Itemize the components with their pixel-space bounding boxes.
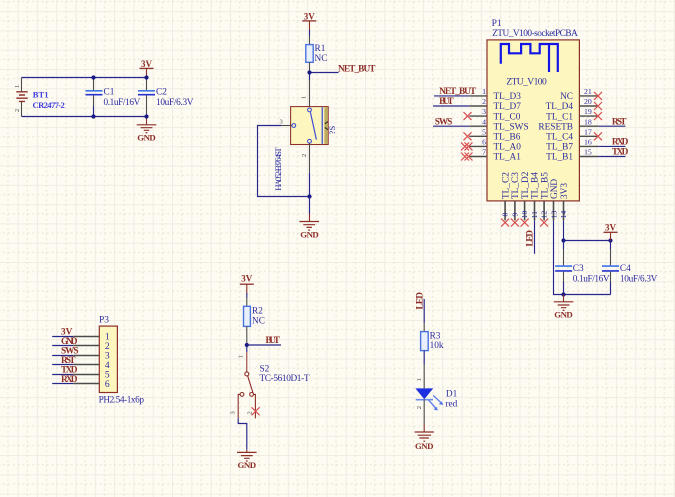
- diode D1 pin2 to GND: [416, 399, 424, 424]
- svg-text:10uF/6.3V: 10uF/6.3V: [620, 274, 658, 284]
- designator P3: [99, 316, 109, 326]
- switch S2: [229, 345, 310, 418]
- svg-text:LED: LED: [525, 230, 535, 247]
- svg-text:3: 3: [105, 351, 110, 361]
- resistor R2: [244, 298, 265, 346]
- no-connect X pin3: [464, 112, 472, 120]
- no-connect X pin5: [464, 132, 472, 140]
- svg-text:0.1uF/16V: 0.1uF/16V: [573, 274, 610, 284]
- svg-text:10uF/6.3V: 10uF/6.3V: [156, 98, 194, 108]
- svg-text:3: 3: [482, 107, 486, 116]
- svg-text:HA052-E8764ST: HA052-E8764ST: [273, 147, 283, 191]
- wire SWS (P3): [52, 355, 73, 357]
- svg-text:TXD: TXD: [612, 148, 629, 158]
- svg-text:NC: NC: [315, 54, 328, 64]
- LED D1: [415, 388, 457, 410]
- P3 pin stubs: [73, 337, 99, 384]
- svg-text:NET_BUT: NET_BUT: [439, 87, 477, 97]
- ground (C3 C4): [554, 295, 574, 320]
- svg-text:2: 2: [416, 406, 423, 409]
- svg-text:TL_D7: TL_D7: [494, 102, 522, 112]
- no-connect X pin19: [594, 112, 602, 120]
- node top C1: [91, 75, 95, 79]
- bottom pin numbers (rotated): [501, 211, 569, 219]
- net label RXD (P3): [61, 375, 78, 385]
- svg-text:20: 20: [584, 97, 592, 106]
- svg-text:TL_B1: TL_B1: [546, 153, 573, 163]
- svg-text:RXD: RXD: [61, 375, 78, 385]
- left pin names: [494, 92, 529, 163]
- value TS4678E-250AH (rotated): [273, 147, 283, 191]
- wire 3V to R1: [309, 30, 311, 36]
- svg-text:R3: R3: [430, 331, 441, 341]
- svg-text:GND: GND: [554, 310, 573, 320]
- svg-text:TL_C1: TL_C1: [546, 112, 573, 122]
- net label RST (P3): [61, 356, 76, 366]
- svg-text:NC: NC: [252, 316, 265, 326]
- pin 2 wire (switch bottom to junction): [301, 143, 310, 196]
- svg-text:BUT: BUT: [439, 97, 454, 107]
- wire LED (pin11 down): [534, 220, 536, 253]
- wire 3V3 pin14 down: [563, 220, 565, 240]
- wire top rail battery to C2: [22, 77, 147, 79]
- svg-text:18: 18: [584, 117, 592, 126]
- right pin names: [538, 92, 573, 163]
- svg-text:C2: C2: [156, 88, 167, 98]
- svg-text:6: 6: [482, 138, 486, 147]
- net label 3V (P3): [61, 327, 73, 337]
- svg-text:TL_D4: TL_D4: [546, 102, 574, 112]
- svg-text:CR2477-2: CR2477-2: [33, 100, 65, 110]
- no-connect X pin9: [511, 219, 519, 227]
- svg-text:3V: 3V: [141, 59, 153, 69]
- svg-text:3V3: 3V3: [560, 183, 570, 199]
- node bottom C2: [144, 114, 148, 118]
- svg-text:17: 17: [584, 127, 592, 136]
- no-connect X S2 pin2: [252, 407, 260, 415]
- bottom pin names (rotated): [501, 171, 570, 199]
- svg-text:10k: 10k: [430, 341, 444, 351]
- diode D1 pin1: [416, 365, 424, 389]
- svg-text:14: 14: [559, 211, 568, 219]
- svg-text:2: 2: [301, 154, 308, 157]
- svg-text:SWS: SWS: [435, 117, 453, 127]
- svg-text:3V: 3V: [605, 223, 617, 233]
- wire GND pin13 down: [554, 220, 611, 294]
- svg-text:1: 1: [416, 378, 423, 381]
- svg-text:C4: C4: [620, 264, 631, 274]
- svg-text:1: 1: [105, 332, 110, 342]
- svg-text:P3: P3: [99, 316, 109, 326]
- ground (S2): [237, 450, 257, 470]
- power 3V (section A): [140, 59, 154, 78]
- header body P3: [99, 326, 117, 392]
- svg-text:ZTU_V100: ZTU_V100: [506, 78, 547, 88]
- net label LED (rotated): [525, 230, 535, 247]
- svg-text:6: 6: [105, 380, 110, 390]
- svg-text:2: 2: [105, 342, 110, 352]
- antenna glyph: [501, 44, 558, 72]
- svg-text:TL_SWS: TL_SWS: [494, 122, 529, 132]
- svg-text:SWS: SWS: [61, 346, 79, 356]
- svg-text:C3: C3: [573, 264, 584, 274]
- svg-text:3: 3: [280, 118, 283, 125]
- right pin numbers: [584, 87, 592, 157]
- svg-text:TXD: TXD: [61, 365, 78, 375]
- right pins 21-15: [579, 96, 598, 157]
- svg-text:GND: GND: [137, 133, 156, 143]
- svg-text:BT1: BT1: [33, 89, 49, 99]
- no-connect X pin17: [594, 132, 602, 140]
- svg-text:GND: GND: [238, 460, 256, 470]
- svg-text:TL_B6: TL_B6: [494, 133, 521, 143]
- net label NET_BUT (P1): [439, 87, 477, 97]
- svg-text:1: 1: [301, 96, 308, 99]
- svg-text:RST: RST: [61, 356, 76, 366]
- resistor R3: [421, 323, 444, 364]
- net label NET_BUT: [338, 64, 376, 74]
- svg-text:3V: 3V: [61, 327, 73, 337]
- svg-text:21: 21: [584, 87, 592, 96]
- net label LED (rotated): [415, 292, 425, 310]
- svg-text:GND: GND: [61, 337, 78, 347]
- no-connect X pin21: [594, 92, 602, 100]
- capacitor C1: [86, 78, 141, 117]
- wire BUT: [247, 344, 281, 346]
- net label TXD (P3): [61, 365, 78, 375]
- left pin numbers: [482, 87, 486, 157]
- resistor R1: [306, 36, 328, 73]
- svg-text:16: 16: [584, 138, 592, 147]
- svg-text:TL_B7: TL_B7: [546, 143, 573, 153]
- svg-text:0.1uF/16V: 0.1uF/16V: [104, 98, 141, 108]
- svg-text:D1: D1: [446, 389, 458, 399]
- svg-text:R1: R1: [315, 44, 326, 54]
- wire GND (P3): [52, 345, 73, 347]
- ground (section B): [299, 214, 319, 240]
- wire TXD (P3): [52, 374, 73, 376]
- wire junction to switch pin1: [301, 73, 310, 108]
- pin 3 wire (switch to left, down, to junction): [258, 118, 310, 196]
- svg-text:9: 9: [511, 213, 520, 217]
- wire BUT to pin2: [433, 105, 469, 107]
- svg-text:TL_C3: TL_C3: [511, 172, 521, 199]
- designator P1: [492, 19, 502, 29]
- svg-text:2: 2: [14, 109, 21, 112]
- node BUT junction: [245, 343, 249, 347]
- ground (D1): [415, 425, 434, 452]
- svg-text:TL_A0: TL_A0: [494, 143, 522, 153]
- node bottom C1: [91, 114, 95, 118]
- wire S2 pin3 to GND: [238, 418, 247, 449]
- svg-text:11: 11: [530, 211, 539, 219]
- svg-text:13: 13: [550, 211, 559, 219]
- svg-text:5: 5: [105, 371, 110, 381]
- wire RST pin18: [598, 125, 625, 127]
- no-connect X pin8: [501, 219, 509, 227]
- value PH2.54-1x6p: [99, 395, 145, 405]
- svg-text:3: 3: [229, 411, 236, 414]
- svg-text:GND: GND: [300, 230, 319, 240]
- svg-text:TL_C0: TL_C0: [494, 112, 521, 122]
- svg-text:5: 5: [482, 127, 486, 136]
- wire junction to GND: [309, 197, 311, 214]
- wire NET_BUT: [310, 72, 339, 74]
- capacitor C3: [555, 241, 610, 295]
- value ZTU_V100-socketPCBA: [492, 29, 578, 39]
- battery BT1: [14, 78, 65, 117]
- svg-text:GND: GND: [550, 179, 560, 199]
- svg-text:1: 1: [14, 85, 21, 88]
- svg-text:1: 1: [238, 355, 245, 358]
- svg-text:4: 4: [482, 117, 486, 126]
- svg-text:1: 1: [482, 87, 486, 96]
- no-connect X pin7: [461, 153, 473, 161]
- svg-text:TL_C4: TL_C4: [546, 133, 573, 143]
- wire TXD pin15: [598, 156, 625, 158]
- svg-text:GND: GND: [415, 441, 434, 451]
- wire RST (P3): [52, 364, 73, 366]
- svg-text:S2: S2: [260, 364, 270, 374]
- no-connect X pin6: [461, 142, 473, 150]
- power 3V (C3 C4): [604, 223, 618, 241]
- svg-text:C1: C1: [104, 88, 115, 98]
- svg-text:TL_D2: TL_D2: [521, 171, 531, 199]
- svg-text:P1: P1: [492, 19, 502, 29]
- svg-text:2: 2: [482, 97, 486, 106]
- wire LED to R3: [423, 299, 425, 323]
- wire SWS to pin4: [433, 125, 469, 127]
- svg-text:R2: R2: [252, 307, 263, 317]
- label ZTU_V100: [506, 78, 547, 88]
- node 3V3 junction: [561, 238, 565, 242]
- no-connect X pin20: [594, 102, 602, 110]
- svg-text:TL_C2: TL_C2: [501, 172, 511, 199]
- svg-text:15: 15: [584, 148, 592, 157]
- capacitor C2: [138, 78, 194, 117]
- wire 3V to R2: [246, 293, 248, 298]
- svg-text:12: 12: [540, 211, 549, 219]
- svg-text:RXD: RXD: [612, 138, 629, 148]
- svg-text:8: 8: [501, 213, 510, 217]
- net label TXD: [612, 148, 629, 158]
- svg-text:10: 10: [520, 211, 529, 219]
- no-connect X pin12: [540, 219, 548, 227]
- svg-text:TL_A1: TL_A1: [494, 153, 522, 163]
- capacitor C4: [602, 241, 658, 295]
- net label BUT (P1): [439, 97, 454, 107]
- svg-text:4: 4: [105, 361, 110, 371]
- ground (section A): [137, 117, 157, 143]
- power 3V (R1): [302, 11, 316, 30]
- node switch bottom junction: [307, 194, 311, 198]
- wire NET_BUT to pin1: [434, 95, 469, 97]
- svg-text:?S: ?S: [327, 126, 337, 135]
- slide switch body: [291, 107, 337, 145]
- net label RST: [612, 117, 627, 127]
- net label SWS (P3): [61, 346, 79, 356]
- wire RXD (P3): [52, 383, 73, 385]
- net label SWS (P1): [435, 117, 453, 127]
- node 3V C4 corner: [608, 238, 612, 242]
- svg-text:NET_BUT: NET_BUT: [338, 64, 376, 74]
- svg-text:3V: 3V: [241, 274, 253, 284]
- power 3V (R2): [240, 274, 254, 294]
- wire 3V rail: [564, 240, 611, 242]
- no-connect X pin10: [521, 219, 529, 227]
- svg-text:TL_B5: TL_B5: [540, 172, 550, 199]
- wire RXD pin16: [598, 145, 625, 147]
- svg-text:3V: 3V: [304, 11, 316, 21]
- net label BUT: [266, 336, 281, 346]
- IC body P1: [487, 40, 579, 201]
- net label GND (P3): [61, 337, 78, 347]
- svg-text:TL_B4: TL_B4: [531, 172, 541, 199]
- left pins 1-7: [469, 96, 487, 157]
- svg-text:7: 7: [482, 148, 486, 157]
- svg-text:TC-5610D1-T: TC-5610D1-T: [260, 374, 310, 384]
- node NET_BUT: [307, 70, 311, 74]
- wire bottom rail battery to C2: [22, 116, 147, 118]
- node C3 bottom: [561, 292, 565, 296]
- net label RXD: [612, 138, 629, 148]
- node top C2: [144, 75, 148, 79]
- svg-text:RST: RST: [612, 117, 627, 127]
- P3 pin numbers: [105, 332, 110, 390]
- wire 3V (P3): [52, 336, 73, 338]
- svg-text:red: red: [445, 400, 457, 410]
- svg-text:NC: NC: [560, 92, 573, 102]
- svg-text:PH2.54-1x6p: PH2.54-1x6p: [99, 395, 145, 405]
- svg-text:19: 19: [584, 107, 592, 116]
- svg-text:TL_D3: TL_D3: [494, 92, 522, 102]
- svg-text:BUT: BUT: [266, 336, 281, 346]
- bottom pins 8-14 stubs: [505, 201, 563, 221]
- svg-text:ZTU_V100-socketPCBA: ZTU_V100-socketPCBA: [492, 29, 578, 39]
- svg-text:RESETB: RESETB: [538, 122, 573, 132]
